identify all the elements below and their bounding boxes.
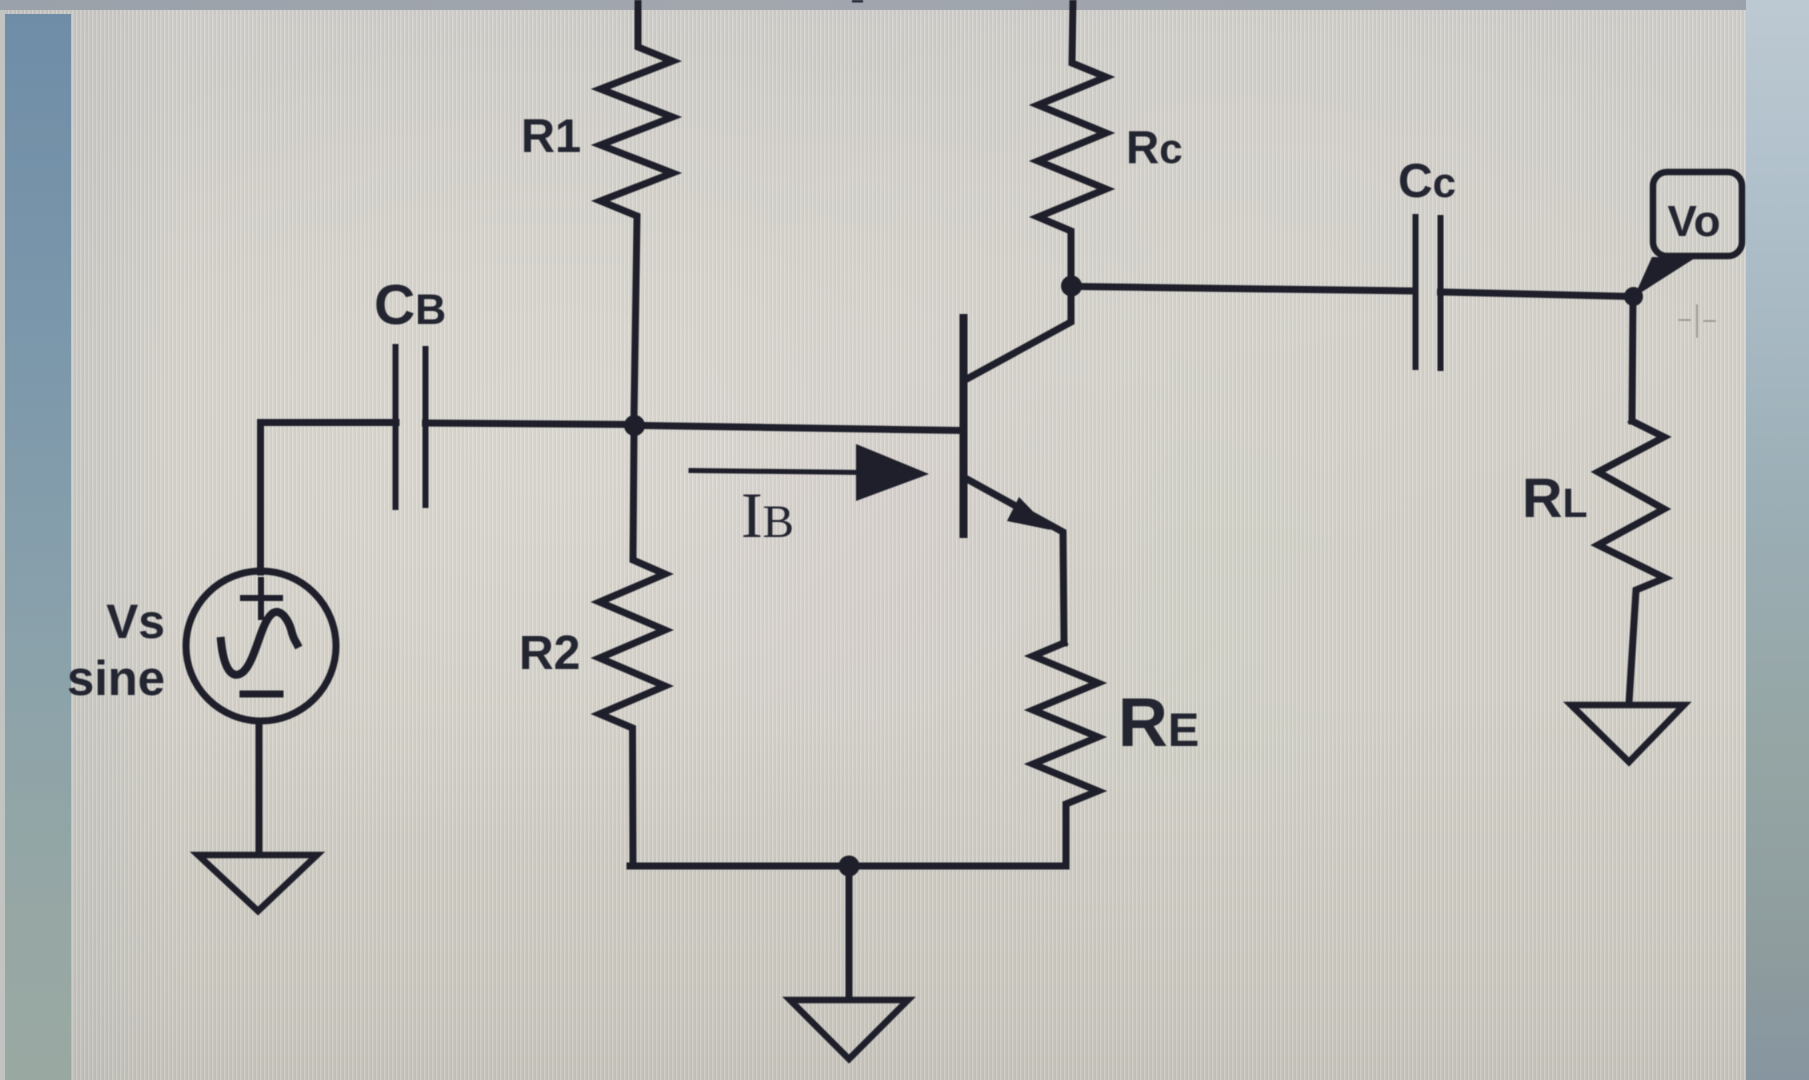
resistor RE [1033, 643, 1098, 866]
IB current arrow line [691, 471, 862, 473]
wire base [645, 426, 960, 431]
capacitor CB left plate [393, 347, 399, 507]
IB arrowhead [856, 444, 929, 501]
node collector junction dot [1061, 276, 1082, 297]
capacitor Cc right plate [1438, 218, 1444, 368]
plus sign [243, 580, 280, 617]
transistor emitter lead [965, 478, 1064, 643]
ground stem center [846, 866, 853, 998]
svg-text:RE: RE [1118, 684, 1199, 761]
wire Cc to output node [1441, 292, 1634, 297]
node emitter-ground junction dot [839, 856, 860, 877]
svg-text:Vs: Vs [106, 596, 165, 649]
cursor crosshair [1679, 305, 1715, 337]
minus sign [243, 691, 280, 698]
capacitor CB right plate [423, 349, 429, 505]
source Vs circle [186, 571, 336, 721]
transistor Q1 base bar [960, 318, 968, 534]
top rail stub mark [852, 0, 863, 3]
sine wave [221, 612, 297, 675]
wire collector to Cc [1080, 287, 1415, 292]
resistor Rc [1038, 0, 1106, 280]
wire source bottom to ground [256, 721, 263, 853]
transistor collector lead [965, 291, 1071, 380]
node Vo junction dot [1624, 287, 1643, 306]
ground symbol center [790, 1000, 908, 1059]
ground symbol right [1571, 705, 1684, 762]
svg-text:sine: sine [67, 652, 165, 706]
svg-text:R2: R2 [519, 627, 580, 680]
wire CB to base node [426, 423, 635, 425]
capacitor Cc left plate [1413, 217, 1419, 367]
resistor R2 [600, 434, 666, 866]
svg-text:R1: R1 [521, 109, 581, 162]
svg-text:CB: CB [374, 273, 446, 337]
node base junction dot [624, 415, 645, 436]
svg-text:RL: RL [1522, 466, 1588, 529]
Vo label box [1653, 172, 1742, 256]
bottom wire [630, 863, 1066, 870]
ground symbol left [198, 855, 317, 911]
Vo pointer wedge [1634, 257, 1695, 297]
transistor emitter arrowhead [1007, 497, 1051, 530]
svg-text:Vo: Vo [1668, 197, 1721, 246]
resistor RL [1598, 421, 1665, 703]
wire Vo node to RL [1632, 297, 1633, 421]
wire source top to CB [261, 423, 397, 573]
svg-text:Cc: Cc [1398, 155, 1456, 208]
svg-text:IB: IB [741, 480, 794, 552]
svg-text:Rc: Rc [1126, 121, 1183, 173]
resistor R1 [601, 0, 673, 416]
